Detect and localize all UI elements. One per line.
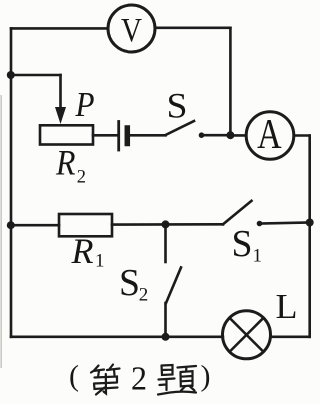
resistor R1 body: [59, 214, 112, 236]
node junction R1/S1/S2: [162, 220, 170, 228]
svg-text:2: 2: [77, 168, 86, 188]
svg-text:V: V: [121, 12, 142, 49]
wire right vertical: [308, 136, 311, 337]
wire wiper vertical: [59, 75, 62, 110]
lamp cross stroke 2: [230, 318, 264, 352]
battery short plate: [125, 128, 131, 144]
wire ammeter to right corner: [294, 134, 310, 137]
lamp cross stroke 1: [230, 318, 264, 352]
switch S blade: [166, 121, 195, 135]
scan artifact left edge: [0, 95, 2, 368]
wire S2 lower vertical: [164, 303, 167, 337]
wire top from left corner to voltmeter: [11, 27, 108, 30]
lamp L body: [223, 311, 271, 359]
caption character ti (题): [158, 365, 196, 395]
battery long plate: [117, 122, 120, 151]
switch S2 blade: [166, 268, 181, 304]
svg-text:R: R: [71, 231, 94, 271]
wire voltmeter right to corner: [155, 26, 230, 29]
svg-text:S: S: [167, 86, 188, 126]
svg-text:A: A: [257, 112, 282, 158]
switch S contact dot: [199, 132, 205, 138]
svg-text:2: 2: [131, 361, 147, 398]
wire from left node to wiper: [11, 74, 61, 77]
rheostat R2 body: [40, 125, 93, 144]
node junction S2/bottom: [162, 333, 170, 341]
wire node to ammeter: [230, 134, 246, 137]
svg-text:S: S: [232, 223, 253, 265]
svg-text:P: P: [75, 85, 95, 124]
wire S1 to right vertical: [260, 223, 310, 224]
wire rheostat to battery: [93, 134, 117, 137]
wire vertical from V down to node: [229, 28, 232, 135]
wire node to switch S1: [166, 223, 224, 226]
svg-text:L: L: [276, 287, 298, 326]
wire S2 upper vertical: [164, 224, 167, 262]
node junction left-R1: [7, 221, 15, 229]
rheostat wiper arrowhead: [55, 107, 66, 124]
switch S1 blade: [223, 201, 252, 225]
wire battery to switch S: [127, 134, 165, 137]
wire lamp to right vertical: [270, 335, 309, 338]
wire left to R1: [11, 224, 59, 227]
node junction right vertical: [306, 219, 314, 227]
svg-text:): ): [201, 360, 211, 393]
svg-text:(: (: [69, 360, 79, 393]
svg-text:R: R: [55, 143, 75, 183]
caption character di (第): [91, 365, 120, 395]
node junction S/A/V: [226, 131, 234, 139]
wire R1 to node: [112, 223, 166, 226]
node junction left-upper: [7, 71, 15, 79]
switch S1 contact dot: [257, 221, 263, 227]
ammeter U-A: [246, 112, 294, 160]
svg-text:S: S: [119, 262, 140, 304]
wire switch S to node: [202, 134, 231, 137]
voltmeter U-V: [108, 5, 155, 52]
svg-text:2: 2: [139, 285, 149, 306]
wire left vertical: [10, 28, 13, 336]
wire bottom left segment: [11, 335, 223, 338]
svg-text:1: 1: [95, 251, 105, 272]
svg-text:1: 1: [253, 246, 263, 267]
